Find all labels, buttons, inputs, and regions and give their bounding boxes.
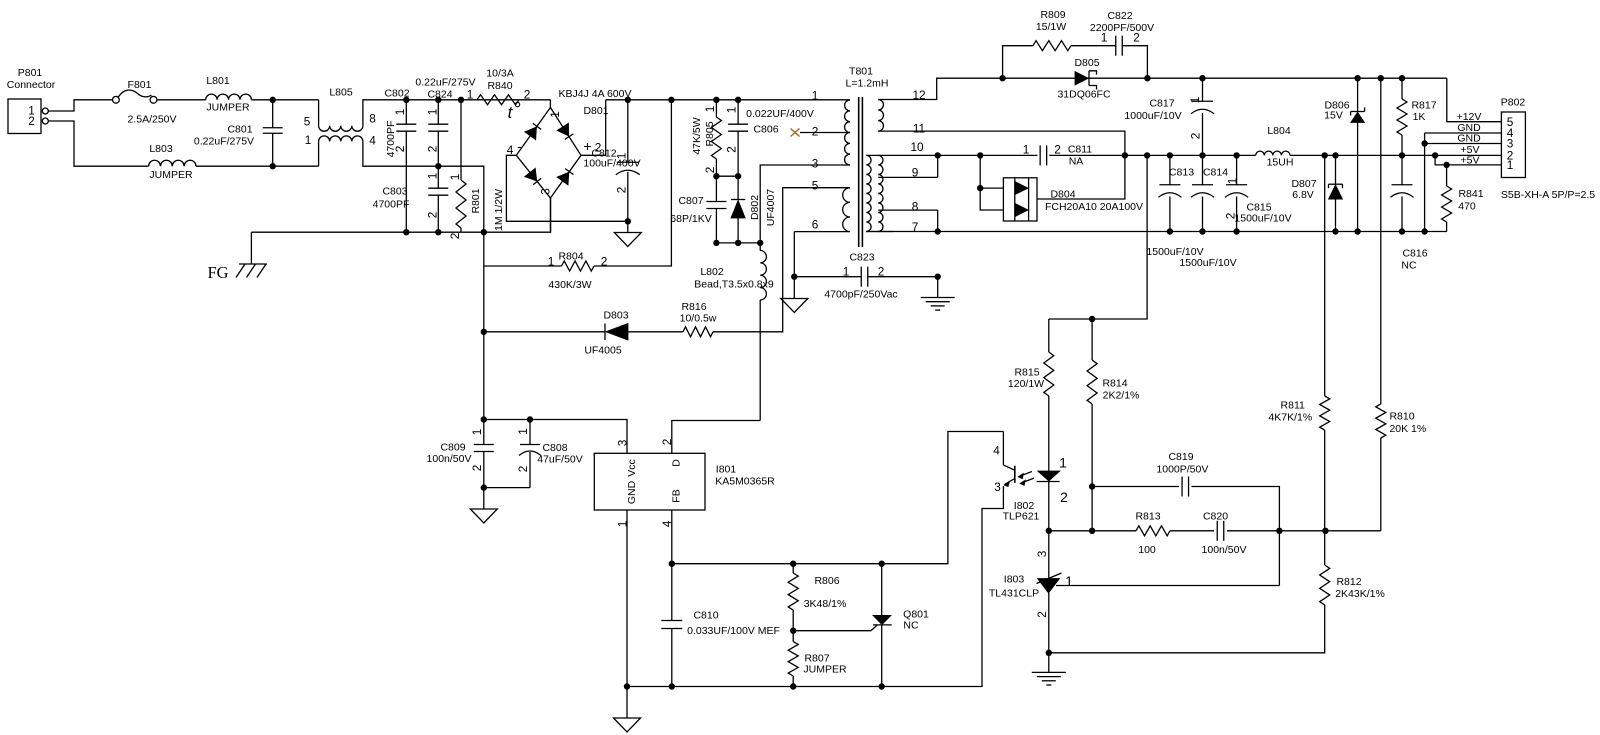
svg-text:8: 8: [912, 200, 919, 214]
svg-text:1: 1: [470, 429, 484, 436]
svg-text:0.22uF/275V: 0.22uF/275V: [415, 76, 475, 88]
svg-text:8: 8: [369, 112, 376, 126]
svg-text:C809: C809: [440, 441, 465, 453]
svg-text:2: 2: [725, 146, 739, 153]
svg-text:S5B-XH-A 5P/P=2.5: S5B-XH-A 5P/P=2.5: [1501, 189, 1595, 201]
svg-text:Vcc: Vcc: [626, 459, 638, 477]
svg-text:3K48/1%: 3K48/1%: [804, 598, 847, 610]
svg-text:Connector: Connector: [7, 79, 56, 91]
svg-text:2: 2: [812, 125, 819, 139]
svg-text:JUMPER: JUMPER: [206, 101, 250, 113]
svg-text:R804: R804: [558, 250, 583, 262]
svg-text:1000P/50V: 1000P/50V: [1156, 463, 1208, 475]
svg-text:4: 4: [369, 134, 376, 148]
svg-text:C824: C824: [427, 88, 452, 100]
svg-text:2: 2: [878, 265, 885, 279]
svg-text:C802: C802: [384, 87, 409, 99]
svg-text:2: 2: [1060, 489, 1068, 505]
svg-text:47uF/50V: 47uF/50V: [537, 453, 583, 465]
svg-text:2: 2: [1189, 133, 1203, 140]
svg-text:15UH: 15UH: [1267, 156, 1294, 168]
svg-text:C822: C822: [1107, 10, 1132, 22]
svg-text:D802: D802: [749, 195, 761, 220]
svg-text:2: 2: [448, 233, 462, 240]
svg-text:L801: L801: [206, 75, 230, 87]
svg-text:1: 1: [516, 428, 530, 435]
svg-text:+12V: +12V: [1457, 111, 1482, 123]
svg-text:C808: C808: [542, 442, 567, 454]
svg-text:KBJ4J 4A 600V: KBJ4J 4A 600V: [559, 88, 632, 100]
svg-text:R811: R811: [1281, 399, 1305, 411]
svg-text:0.022UF/400V: 0.022UF/400V: [746, 108, 814, 120]
svg-text:-: -: [517, 138, 522, 154]
svg-text:2: 2: [615, 187, 629, 194]
svg-text:1M 1/2W: 1M 1/2W: [493, 189, 505, 231]
svg-text:+5V: +5V: [1461, 155, 1480, 167]
svg-text:100n/50V: 100n/50V: [427, 453, 472, 465]
svg-text:2.5A/250V: 2.5A/250V: [127, 113, 176, 125]
svg-text:L804: L804: [1267, 125, 1291, 137]
svg-text:2: 2: [516, 466, 530, 473]
svg-text:15V: 15V: [1324, 109, 1343, 121]
svg-text:FCH20A10 20A100V: FCH20A10 20A100V: [1045, 201, 1143, 213]
svg-text:1: 1: [548, 255, 555, 269]
svg-text:4: 4: [993, 444, 1000, 458]
svg-text:D804: D804: [1050, 188, 1075, 200]
svg-text:C801: C801: [227, 123, 252, 135]
svg-text:4K7K/1%: 4K7K/1%: [1268, 411, 1312, 423]
svg-text:P802: P802: [1501, 96, 1526, 108]
svg-text:NC: NC: [903, 619, 919, 631]
svg-text:100n/50V: 100n/50V: [1202, 544, 1247, 556]
svg-text:47K/5W: 47K/5W: [691, 117, 703, 154]
svg-text:P801: P801: [18, 67, 43, 79]
svg-text:2: 2: [601, 255, 608, 269]
svg-text:2: 2: [524, 88, 531, 102]
svg-text:2: 2: [1133, 31, 1140, 45]
svg-text:C819: C819: [1168, 451, 1193, 463]
svg-text:TL431CLP: TL431CLP: [989, 587, 1039, 599]
svg-text:15/1W: 15/1W: [1036, 21, 1066, 33]
svg-text:5: 5: [304, 115, 311, 129]
svg-text:100uF/400V: 100uF/400V: [583, 157, 640, 169]
svg-text:5: 5: [812, 179, 819, 193]
svg-text:6: 6: [812, 218, 819, 232]
svg-text:1: 1: [615, 153, 629, 160]
svg-text:R816: R816: [681, 301, 706, 313]
svg-text:1: 1: [1065, 573, 1073, 589]
svg-text:JUMPER: JUMPER: [803, 663, 847, 675]
svg-text:D803: D803: [603, 309, 628, 321]
svg-text:R806: R806: [814, 575, 839, 587]
svg-text:+: +: [583, 138, 591, 154]
svg-text:2: 2: [393, 146, 407, 153]
svg-text:1500uF/10V: 1500uF/10V: [1234, 212, 1291, 224]
svg-text:2: 2: [1224, 213, 1238, 220]
svg-text:2: 2: [470, 465, 484, 472]
svg-text:C814: C814: [1203, 166, 1228, 178]
svg-text:C803: C803: [382, 185, 407, 197]
svg-text:R805: R805: [704, 121, 716, 146]
svg-text:R840: R840: [487, 80, 512, 92]
svg-text:1: 1: [1226, 178, 1240, 185]
svg-text:KA5M0365R: KA5M0365R: [715, 475, 775, 487]
svg-text:1: 1: [1101, 31, 1108, 45]
svg-text:2: 2: [1054, 143, 1061, 157]
svg-text:2: 2: [426, 212, 440, 219]
svg-text:2: 2: [28, 114, 35, 128]
svg-text:L803: L803: [149, 143, 173, 155]
svg-text:120/1W: 120/1W: [1008, 378, 1044, 390]
svg-text:D: D: [670, 459, 682, 467]
svg-text:1: 1: [703, 106, 717, 113]
svg-text:1500uF/10V: 1500uF/10V: [1179, 257, 1236, 269]
svg-text:R812: R812: [1336, 576, 1361, 588]
svg-text:R841: R841: [1458, 188, 1483, 200]
svg-text:Bead,T3.5x0.8x9: Bead,T3.5x0.8x9: [694, 278, 774, 290]
svg-text:20K 1%: 20K 1%: [1389, 423, 1426, 435]
svg-text:1: 1: [448, 174, 462, 181]
svg-text:2: 2: [426, 146, 440, 153]
svg-text:1: 1: [725, 107, 739, 114]
svg-text:2K2/1%: 2K2/1%: [1103, 389, 1140, 401]
svg-text:C806: C806: [753, 123, 778, 135]
svg-text:R815: R815: [1014, 366, 1039, 378]
svg-text:TLP621: TLP621: [1003, 510, 1040, 522]
svg-text:3: 3: [616, 439, 630, 446]
svg-text:R813: R813: [1135, 510, 1160, 522]
svg-text:C811: C811: [1068, 143, 1092, 155]
svg-text:R810: R810: [1389, 410, 1414, 422]
svg-text:1: 1: [426, 173, 440, 180]
svg-text:11: 11: [913, 122, 925, 136]
svg-text:1: 1: [1507, 158, 1514, 172]
svg-text:FG: FG: [207, 263, 228, 282]
svg-text:GND: GND: [626, 480, 638, 504]
svg-text:0.033UF/100V MEF: 0.033UF/100V MEF: [687, 625, 780, 637]
svg-text:C807: C807: [678, 195, 703, 207]
svg-text:2: 2: [1035, 611, 1049, 618]
svg-text:0.22uF/275V: 0.22uF/275V: [194, 135, 254, 147]
svg-text:2200PF/500V: 2200PF/500V: [1090, 22, 1154, 34]
svg-text:FB: FB: [670, 489, 682, 502]
svg-text:C823: C823: [849, 251, 874, 263]
svg-text:3: 3: [812, 157, 819, 171]
svg-text:10/3A: 10/3A: [486, 67, 513, 79]
svg-text:10/0.5w: 10/0.5w: [680, 312, 717, 324]
svg-text:C820: C820: [1203, 510, 1228, 522]
svg-text:L802: L802: [700, 266, 724, 278]
svg-text:L=1.2mH: L=1.2mH: [846, 77, 889, 89]
svg-text:R809: R809: [1040, 9, 1065, 21]
svg-text:1: 1: [426, 109, 440, 116]
svg-text:I803: I803: [1004, 573, 1025, 585]
svg-text:GND: GND: [1457, 133, 1481, 145]
svg-text:1: 1: [1023, 143, 1030, 157]
svg-text:9: 9: [912, 166, 919, 180]
svg-text:1000uF/10V: 1000uF/10V: [1124, 110, 1181, 122]
svg-text:JUMPER: JUMPER: [149, 169, 193, 181]
svg-text:3: 3: [994, 480, 1001, 494]
svg-text:D805: D805: [1074, 57, 1099, 69]
svg-text:F801: F801: [128, 79, 152, 91]
svg-text:C810: C810: [693, 609, 718, 621]
svg-text:UF4007: UF4007: [765, 189, 777, 227]
svg-text:6.8V: 6.8V: [1292, 189, 1314, 201]
svg-text:C813: C813: [1169, 166, 1194, 178]
svg-text:UF4005: UF4005: [584, 344, 622, 356]
svg-text:12: 12: [912, 88, 925, 102]
svg-text:1: 1: [305, 133, 312, 147]
svg-text:1: 1: [467, 88, 474, 102]
svg-text:31DQ06FC: 31DQ06FC: [1057, 88, 1111, 100]
svg-text:4: 4: [507, 143, 514, 157]
svg-text:R817: R817: [1411, 99, 1436, 111]
svg-text:3: 3: [1035, 550, 1049, 557]
svg-text:4700PF: 4700PF: [373, 198, 410, 210]
svg-text:2K43K/1%: 2K43K/1%: [1335, 588, 1385, 600]
svg-text:L805: L805: [329, 86, 353, 98]
svg-text:10: 10: [910, 140, 924, 154]
svg-text:1K: 1K: [1413, 111, 1426, 123]
svg-text:1: 1: [1059, 455, 1067, 471]
svg-text:100: 100: [1138, 544, 1156, 556]
svg-text:D801: D801: [583, 105, 608, 117]
svg-text:68P/1KV: 68P/1KV: [670, 213, 711, 225]
svg-text:R801: R801: [470, 188, 482, 213]
svg-text:4700pF/250Vac: 4700pF/250Vac: [824, 288, 897, 300]
svg-text:NC: NC: [1401, 259, 1417, 271]
svg-text:3: 3: [539, 188, 553, 195]
svg-text:R814: R814: [1102, 377, 1127, 389]
svg-text:1: 1: [548, 111, 562, 118]
svg-text:1: 1: [812, 89, 819, 103]
svg-text:1: 1: [1188, 97, 1202, 104]
svg-text:1: 1: [843, 265, 850, 279]
svg-text:470: 470: [1458, 200, 1476, 212]
svg-text:C817: C817: [1149, 97, 1174, 109]
svg-text:1: 1: [393, 109, 407, 116]
svg-text:C816: C816: [1402, 247, 1427, 259]
svg-text:430K/3W: 430K/3W: [548, 279, 591, 291]
svg-text:T801: T801: [849, 65, 873, 77]
svg-text:NA: NA: [1069, 155, 1084, 167]
svg-text:2: 2: [703, 167, 717, 174]
svg-text:I801: I801: [716, 463, 737, 475]
